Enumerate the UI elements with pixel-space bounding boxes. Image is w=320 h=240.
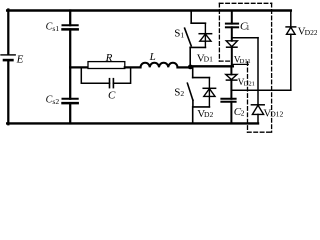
svg-text:1: 1 [246, 23, 250, 32]
diode VD11 [226, 41, 251, 66]
svg-text:D1: D1 [204, 55, 213, 64]
svg-text:E: E [16, 53, 24, 65]
svg-text:D22: D22 [305, 28, 317, 37]
wire Cs1-Cs2 vertical [69, 29, 71, 98]
wire C2 to bottom rail [230, 102, 232, 124]
node junction dot [188, 65, 193, 70]
wire VD22 anode down to y90 [290, 34, 292, 90]
capacitor C [108, 79, 116, 102]
svg-text:2: 2 [241, 109, 245, 118]
wire Cs2 to bottom rail [69, 103, 71, 123]
wire left rail lower [7, 61, 9, 124]
wire horizontal y90 (C2 top to VD22 anode) [231, 89, 290, 91]
svg-text:2: 2 [180, 89, 184, 98]
wire S2 to bottom rail [192, 107, 194, 124]
wire VD21 to C2 [230, 80, 232, 99]
battery E [1, 53, 24, 65]
wire top rail corner down to VD22 [290, 11, 292, 27]
capacitor C1 [226, 11, 250, 33]
dashed box 1 (snubber cell upper) [219, 3, 271, 61]
diode VD1 [197, 23, 213, 64]
capacitor Cs2 [46, 94, 78, 105]
resistor R [88, 52, 125, 69]
svg-text:L: L [149, 51, 156, 63]
wire VD12 to bottom rail [257, 114, 259, 123]
switch S2 [174, 78, 209, 107]
inductor L [141, 51, 178, 68]
wire bottom rail [7, 122, 258, 124]
svg-text:D2: D2 [204, 110, 213, 119]
svg-text:D11: D11 [240, 58, 251, 65]
wire top rail [7, 9, 291, 11]
wire thin rail continuation under VD11 label [233, 63, 248, 65]
wire node to S2 top [192, 67, 194, 78]
svg-text:R: R [105, 52, 113, 64]
diode VD21 [226, 75, 255, 89]
wire mid rail to VD21 [230, 66, 232, 74]
svg-text:D21: D21 [244, 81, 255, 88]
wire VD11 to mid rail [231, 47, 233, 66]
diode VD2 [197, 78, 215, 120]
diode VD22 [286, 26, 318, 38]
dashed box 2 (snubber cell lower) [248, 62, 272, 132]
wire L to mid node [178, 66, 191, 68]
wire branch C1/VD11 node to right [232, 37, 258, 39]
capacitor Cs1 [46, 11, 78, 33]
svg-text:1: 1 [180, 30, 184, 39]
wire vertical x258 down to VD12 [257, 38, 259, 105]
diode VD12 [251, 105, 283, 120]
wire left rail upper [7, 10, 9, 55]
svg-text:s1: s1 [52, 24, 59, 33]
wire R to L segment [125, 66, 141, 68]
capacitor C2 [221, 99, 244, 118]
svg-text:s2: s2 [52, 97, 59, 106]
dashed right edge (shared) [271, 3, 273, 132]
wire S1 bottom to node [189, 47, 191, 66]
wire C1 to VD11 [231, 27, 233, 41]
wire mid left (junction to R) [70, 66, 88, 68]
wire RC parallel branch [81, 67, 130, 83]
wire mid rail right (node to chain) [190, 65, 233, 67]
svg-text:C: C [108, 90, 116, 102]
switch S1 [174, 11, 205, 48]
